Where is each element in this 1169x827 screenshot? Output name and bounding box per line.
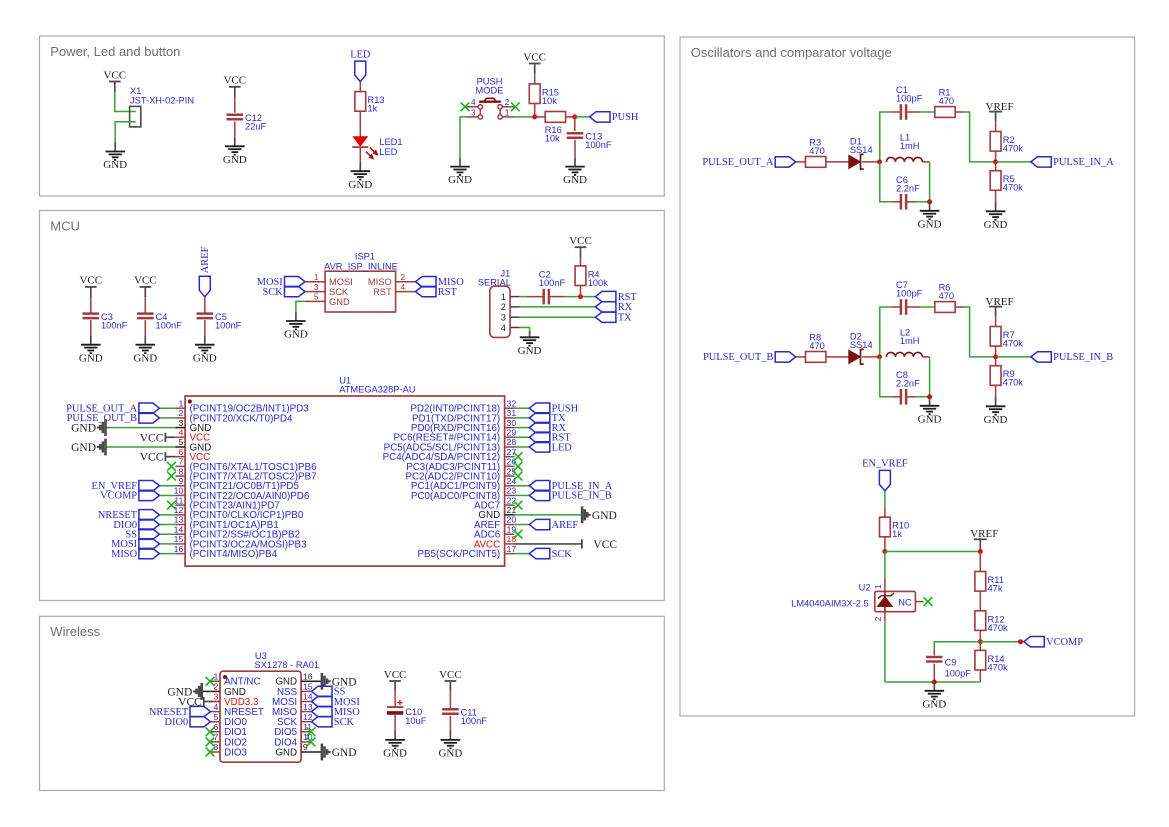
- resistor R1: [935, 88, 955, 118]
- resistor R14: [975, 650, 1008, 672]
- svg-text:4: 4: [501, 323, 506, 333]
- U1 pin 19 ADC6: [474, 524, 516, 540]
- ground (divider R9): [984, 397, 1008, 426]
- lead C13 to GND: [574, 140, 576, 158]
- wire U1 right row5: [515, 446, 530, 448]
- lead junction to R14: [979, 642, 981, 651]
- lead R5 to GND: [995, 190, 997, 202]
- wire U3 pin2 GND: [202, 690, 210, 692]
- ground (ISP1): [284, 312, 308, 340]
- ISP1 pin 5 GND: [305, 292, 350, 307]
- U1 pin 30 PD0(RXD/PCINT16): [411, 418, 516, 434]
- svg-text:100pF: 100pF: [896, 289, 923, 299]
- svg-text:GND: GND: [284, 329, 308, 341]
- U1 pin 20 AREF: [474, 515, 516, 531]
- global label EN_VREF: [91, 481, 159, 493]
- power VCC (C3): [79, 275, 102, 298]
- svg-text:2: 2: [505, 97, 510, 107]
- power VCC (C12): [223, 75, 246, 98]
- svg-text:100nF: 100nF: [215, 320, 242, 330]
- svg-text:VREF: VREF: [970, 528, 998, 540]
- power flag GND (U1 pin3): [71, 419, 105, 436]
- J1 pin 3: [501, 313, 520, 323]
- lead C1 left: [891, 111, 901, 113]
- svg-text:C9: C9: [945, 658, 957, 668]
- svg-text:MISO: MISO: [111, 549, 137, 560]
- U3 pin 8 DIO3: [210, 742, 247, 758]
- resistor R6: [935, 283, 955, 313]
- lead C10 to GND: [394, 715, 396, 731]
- svg-text:15: 15: [174, 534, 184, 544]
- power flag VCC (U1 pin18 AVCC): [515, 539, 618, 551]
- resistor R10: [880, 517, 910, 539]
- svg-text:GND: GND: [223, 154, 247, 166]
- lead R6 right: [955, 306, 963, 308]
- lead junction to R9: [995, 357, 997, 366]
- U3 pin 13 MISO: [272, 702, 313, 718]
- svg-text:24: 24: [507, 476, 517, 486]
- ground (C11): [438, 731, 462, 760]
- ground (C12): [223, 137, 247, 166]
- resistor R5: [990, 171, 1023, 193]
- capacitor C12: [227, 113, 267, 132]
- global label RX: [529, 422, 566, 434]
- junction: [932, 680, 937, 685]
- global label AREF: [529, 519, 578, 531]
- svg-text:470: 470: [939, 96, 955, 106]
- svg-text:GND: GND: [563, 174, 587, 186]
- svg-text:AREF: AREF: [200, 246, 211, 273]
- svg-text:VCC: VCC: [593, 539, 617, 551]
- no-connect U1 pin8: [167, 472, 176, 481]
- svg-text:5: 5: [213, 712, 218, 722]
- U3 pin 15 NSS: [277, 682, 313, 698]
- svg-text:2: 2: [213, 682, 218, 692]
- lead VCC to C3: [90, 297, 92, 313]
- junction: [927, 199, 932, 204]
- power VCC (R4): [569, 235, 592, 258]
- junction: [877, 159, 882, 164]
- wire U1 pin21 GND: [515, 514, 582, 516]
- U3 pin 5 DIO0: [210, 712, 247, 728]
- lead R13 to LED1: [359, 111, 361, 137]
- lead R7 to junction: [995, 346, 997, 357]
- svg-text:31: 31: [507, 408, 517, 418]
- svg-text:GND: GND: [918, 413, 942, 425]
- U1 pin 11 (PCINT23/AIN1)PD7: [174, 495, 280, 511]
- global label PULSE_IN_B: [529, 490, 611, 502]
- lead VCC to C11: [449, 691, 451, 709]
- wire U1 pin17: [515, 553, 530, 555]
- U1 pin 29 PC6(RESET#/PCINT14): [393, 427, 516, 443]
- svg-text:PB5(SCK/PCINT5): PB5(SCK/PCINT5): [417, 549, 500, 560]
- svg-text:JST-XH-02-PIN: JST-XH-02-PIN: [130, 95, 194, 105]
- global label PUSH: [529, 403, 578, 415]
- power VREF: [986, 296, 1014, 317]
- svg-text:3: 3: [314, 282, 319, 292]
- svg-text:100nF: 100nF: [461, 716, 488, 726]
- svg-text:SCK: SCK: [329, 287, 349, 297]
- wire J1 pin1 to C2: [520, 296, 527, 298]
- svg-text:PULSE_IN_B: PULSE_IN_B: [552, 491, 612, 502]
- wire U1 pin10: [159, 494, 175, 496]
- svg-text:LED1: LED1: [379, 137, 402, 147]
- svg-text:MOSI: MOSI: [329, 277, 353, 287]
- svg-text:1k: 1k: [892, 529, 902, 539]
- wire U1 pin9: [159, 485, 175, 487]
- ISP1 pin 4 RST: [373, 282, 415, 297]
- U3 pin 9 GND: [275, 742, 311, 758]
- global label PULSE_OUT_B: [67, 413, 160, 425]
- lead VCC to C4: [144, 297, 146, 313]
- wire U3 pin9 GND: [311, 751, 322, 753]
- lead R10 to junction: [884, 537, 886, 552]
- connector X1 JST-XH-02-PIN: [130, 86, 194, 127]
- junction: [993, 354, 998, 359]
- no-connect U2 NC: [924, 597, 933, 606]
- no-connect U1 pin11: [167, 501, 176, 510]
- ground (C13): [563, 157, 587, 186]
- global label DIO0 (U3): [165, 717, 211, 729]
- wire C6 to junction: [880, 162, 893, 202]
- wire R6 to divider: [964, 307, 996, 357]
- svg-text:2: 2: [873, 616, 883, 621]
- svg-text:EN_VREF: EN_VREF: [862, 459, 908, 470]
- junction: [578, 294, 583, 299]
- wire ISP1 pin5 to GND: [296, 301, 305, 312]
- lead C7 left: [891, 306, 901, 308]
- U3 pin 4 NRESET: [210, 702, 264, 718]
- lead R11 to R12: [979, 591, 981, 611]
- lead R3 to diode D1: [826, 161, 849, 163]
- svg-text:470: 470: [809, 146, 825, 156]
- svg-text:1k: 1k: [368, 104, 378, 114]
- svg-text:9: 9: [178, 476, 183, 486]
- svg-text:470: 470: [939, 291, 955, 301]
- svg-text:25: 25: [507, 466, 517, 476]
- global label EN_VREF: [862, 459, 908, 491]
- capacitor C10 (polarized): [387, 700, 427, 726]
- wire inductor to right drop: [922, 161, 929, 163]
- lead VREF junction to R11: [979, 552, 981, 572]
- svg-text:RST: RST: [438, 287, 458, 298]
- svg-text:2.2nF: 2.2nF: [896, 378, 920, 388]
- lead C3 to GND: [90, 320, 92, 335]
- global label PULSE_IN_B: [1031, 352, 1113, 364]
- svg-text:GND: GND: [448, 174, 472, 186]
- ground (SW): [448, 158, 472, 186]
- wire right drop to C8: [916, 357, 929, 397]
- U1 pin 13 (PCINT1/OC1A)PB1: [174, 515, 279, 531]
- wire C1 to R1: [920, 111, 935, 113]
- global label MOSI (U3): [312, 696, 361, 708]
- global label MOSI (ISP1): [257, 277, 305, 289]
- lead R2 to junction: [995, 151, 997, 162]
- resistor R13: [355, 92, 385, 114]
- svg-text:LED: LED: [379, 147, 397, 157]
- svg-text:18: 18: [507, 534, 517, 544]
- svg-text:1: 1: [873, 584, 883, 589]
- lead junction to C13: [574, 117, 576, 131]
- capacitor C6: [896, 175, 920, 210]
- global label AREF (C5): [199, 246, 211, 296]
- svg-text:9: 9: [303, 742, 308, 752]
- no-connect U3 pin11: [307, 727, 316, 736]
- svg-text:AVR_ISP_INLINE: AVR_ISP_INLINE: [324, 262, 398, 272]
- svg-text:GND: GND: [275, 747, 297, 758]
- global label PULSE_IN_A: [529, 481, 612, 493]
- lead diode to junction: [862, 161, 879, 163]
- inductor L2 1mH: [886, 328, 922, 357]
- svg-text:DIO0: DIO0: [165, 717, 189, 728]
- J1 pin 2: [501, 302, 520, 312]
- U1 pin 31 PD1(TXD/PCINT17): [412, 408, 516, 424]
- global label RST (J1): [595, 291, 637, 303]
- lead R4 to junction: [580, 286, 582, 297]
- wire U1 pin24: [515, 485, 530, 487]
- wire U2 pin2 to bottom rail: [884, 622, 886, 682]
- svg-text:16: 16: [174, 544, 184, 554]
- lead R15 to junction: [534, 104, 536, 117]
- svg-text:GND: GND: [332, 747, 357, 759]
- lead VREF to R7: [995, 317, 997, 327]
- svg-text:VCC: VCC: [569, 235, 592, 247]
- power VCC (C10): [384, 669, 407, 692]
- U1 pin 25 PC2(ADC2/PCINT10): [405, 466, 516, 482]
- wire U1 right row2: [515, 417, 530, 419]
- global label LED: [350, 49, 371, 81]
- wire U1 right row4: [515, 436, 530, 438]
- ground (C8): [918, 397, 942, 426]
- svg-text:23: 23: [507, 486, 517, 496]
- wire U3 pin15: [310, 690, 313, 692]
- ISP1 pin 2 MISO: [368, 272, 416, 287]
- power flag VCC (U1 pin4): [140, 432, 176, 444]
- lead C4 to GND: [144, 320, 146, 335]
- lead VCC to R4: [580, 258, 582, 267]
- connector ISP1 AVR_ISP_INLINE: [324, 251, 398, 312]
- junction: [927, 394, 932, 399]
- wire C2 to RST label: [565, 296, 596, 298]
- svg-text:SCK: SCK: [262, 287, 283, 298]
- svg-text:27: 27: [507, 447, 517, 457]
- wire U1 right row3: [515, 427, 530, 429]
- lead LED label to R13: [359, 82, 361, 92]
- ground (C6): [918, 202, 942, 231]
- junction: [978, 549, 983, 554]
- wire SW pin3 to GND: [460, 117, 466, 158]
- svg-text:3: 3: [213, 692, 218, 702]
- svg-text:(PCINT4/MISO)PB4: (PCINT4/MISO)PB4: [190, 549, 278, 560]
- svg-text:3: 3: [471, 108, 476, 118]
- svg-text:GND: GND: [984, 414, 1008, 426]
- svg-text:12: 12: [303, 712, 313, 722]
- lead VCC to C10: [394, 691, 396, 706]
- svg-text:100nF: 100nF: [156, 320, 183, 330]
- svg-text:10k: 10k: [542, 96, 557, 106]
- capacitor C13: [567, 132, 612, 151]
- no-connect U1 pin27: [514, 452, 523, 461]
- resistor R16: [545, 112, 566, 144]
- svg-text:2.2nF: 2.2nF: [896, 183, 920, 193]
- svg-text:5: 5: [178, 437, 183, 447]
- capacitor C3: [83, 312, 128, 331]
- junction: [978, 639, 983, 644]
- U3 pin 1 ANT/NC: [210, 672, 260, 688]
- no-connect SW pin 2: [511, 102, 520, 111]
- svg-text:15: 15: [303, 682, 313, 692]
- capacitor C9: [926, 657, 971, 678]
- svg-text:3: 3: [178, 418, 183, 428]
- ISP1 pin 3 SCK: [305, 282, 349, 297]
- global label PUSH: [590, 112, 639, 124]
- wire U1 pin3 GND: [106, 427, 176, 429]
- svg-text:8: 8: [213, 742, 218, 752]
- lead C9 to bottom rail: [933, 664, 935, 682]
- resistor R8: [806, 333, 826, 363]
- svg-text:1: 1: [505, 108, 510, 118]
- global label VCOMP: [1024, 637, 1083, 649]
- wire junction up to C7: [880, 307, 891, 357]
- ground (C3): [79, 335, 103, 364]
- svg-text:4: 4: [471, 97, 476, 107]
- lead C11 to GND: [449, 716, 451, 731]
- svg-text:470k: 470k: [988, 623, 1009, 633]
- svg-text:VCOMP: VCOMP: [1046, 637, 1083, 648]
- lead R8 to diode D2: [826, 356, 849, 358]
- lead C6 right: [906, 201, 916, 203]
- resistor R15: [529, 84, 559, 106]
- svg-text:2: 2: [501, 302, 506, 312]
- svg-text:470k: 470k: [1003, 183, 1024, 193]
- lead C1 right: [906, 111, 920, 113]
- lead PULSE_OUT_A to R3: [796, 161, 806, 163]
- wire divider to PULSE_IN_A: [996, 161, 1031, 163]
- inductor L1 1mH: [886, 133, 922, 162]
- no-connect U1 pin19: [514, 530, 523, 539]
- junction: [1018, 639, 1023, 644]
- ground (LED1): [348, 162, 372, 191]
- svg-text:VCC: VCC: [223, 75, 246, 87]
- diode D2 SS14: [849, 331, 873, 364]
- svg-text:100nF: 100nF: [101, 320, 128, 330]
- global label TX: [529, 413, 566, 425]
- power VCC (X1): [103, 69, 126, 92]
- wire U1 pin20: [515, 524, 530, 526]
- U3 pin 10 DIO4: [274, 732, 313, 748]
- ground (C5): [193, 335, 217, 364]
- lead C7 right: [906, 306, 920, 308]
- lead U3 pin3: [212, 701, 220, 703]
- lead R14 to bottom rail: [979, 670, 981, 682]
- no-connect U3 pin8: [206, 748, 215, 757]
- capacitor C4: [137, 312, 182, 331]
- svg-text:7: 7: [213, 732, 218, 742]
- junction: [877, 354, 882, 359]
- power VREF (comparator): [970, 528, 998, 551]
- wire U1 pin2: [159, 417, 175, 419]
- ground (J1): [518, 331, 542, 357]
- U1 pin 4 VCC: [175, 427, 210, 443]
- wire U1 right row1: [515, 407, 530, 409]
- svg-text:VCC: VCC: [140, 432, 164, 444]
- svg-text:PULSE_OUT_B: PULSE_OUT_B: [703, 352, 774, 363]
- wire divider to PULSE_IN_B: [996, 356, 1031, 358]
- svg-text:Oscillators and comparator vol: Oscillators and comparator voltage: [691, 45, 892, 60]
- svg-text:SX1278 - RA01: SX1278 - RA01: [255, 660, 320, 670]
- svg-text:GND: GND: [133, 352, 157, 364]
- svg-text:AREF: AREF: [552, 520, 579, 531]
- svg-text:GND: GND: [518, 345, 542, 357]
- svg-text:47k: 47k: [988, 584, 1003, 594]
- no-connect U3 pin10: [307, 738, 316, 747]
- svg-text:2: 2: [178, 408, 183, 418]
- U3 pin 14 MOSI: [272, 692, 313, 708]
- resistor R11: [975, 572, 1004, 594]
- global label SS (U3): [312, 686, 346, 698]
- svg-text:GND: GND: [193, 352, 217, 364]
- capacitor C1: [896, 85, 923, 120]
- U1 pin 21 GND: [478, 505, 516, 521]
- wire J1 pin2 to RX label: [520, 306, 596, 308]
- capacitor C2: [539, 270, 566, 305]
- svg-text:GND: GND: [592, 510, 617, 522]
- lead C2 right: [549, 296, 565, 298]
- lead R12 to VCOMP junction: [979, 630, 981, 641]
- power flag VCC (U1 pin6): [140, 452, 176, 464]
- svg-text:GND: GND: [71, 442, 96, 454]
- svg-text:19: 19: [507, 524, 517, 534]
- power VCC (R15): [523, 51, 546, 74]
- svg-text:U2: U2: [859, 582, 871, 592]
- svg-text:4: 4: [213, 702, 218, 712]
- junction: [572, 114, 577, 119]
- U3 pin 11 DIO5: [274, 722, 312, 738]
- svg-text:VCC: VCC: [523, 51, 546, 63]
- U1 pin 7 (PCINT6/XTAL1/TOSC1)PB6: [175, 457, 317, 473]
- svg-text:VCC: VCC: [140, 452, 164, 464]
- resistor R2: [990, 132, 1023, 154]
- svg-text:7: 7: [178, 457, 183, 467]
- no-connect U3 pin7: [206, 738, 215, 747]
- wire U1 pin12: [159, 514, 175, 516]
- wire U1 pin15: [159, 543, 175, 545]
- wire EN_VREF to R10: [884, 491, 886, 508]
- U1 pin 22 ADC7: [474, 495, 516, 511]
- wire U1 pin1: [159, 407, 175, 409]
- svg-text:12: 12: [174, 505, 184, 515]
- wire U3 pin16 GND: [311, 680, 322, 682]
- no-connect U1 pin22: [514, 501, 523, 510]
- lead C12 to GND: [234, 121, 236, 137]
- U3 pin 12 SCK: [277, 712, 313, 728]
- power flag VCC (U3 pin3): [178, 697, 212, 709]
- lead junction to R16: [535, 116, 546, 118]
- wire R1 to divider: [964, 112, 996, 162]
- power VREF: [986, 101, 1014, 122]
- lead AREF label to C5: [204, 297, 206, 314]
- global label MISO (ISP1): [416, 277, 465, 289]
- U1 pin 3 GND: [175, 418, 211, 434]
- lead C5 to GND: [204, 320, 206, 335]
- svg-text:4: 4: [178, 427, 183, 437]
- svg-text:470: 470: [809, 341, 825, 351]
- LED LED1: [352, 137, 402, 159]
- no-connect SW pin 4: [461, 102, 470, 111]
- power flag GND (U3 pin2): [167, 683, 201, 700]
- svg-text:100nF: 100nF: [539, 278, 566, 288]
- global label PULSE_OUT_A: [702, 157, 795, 169]
